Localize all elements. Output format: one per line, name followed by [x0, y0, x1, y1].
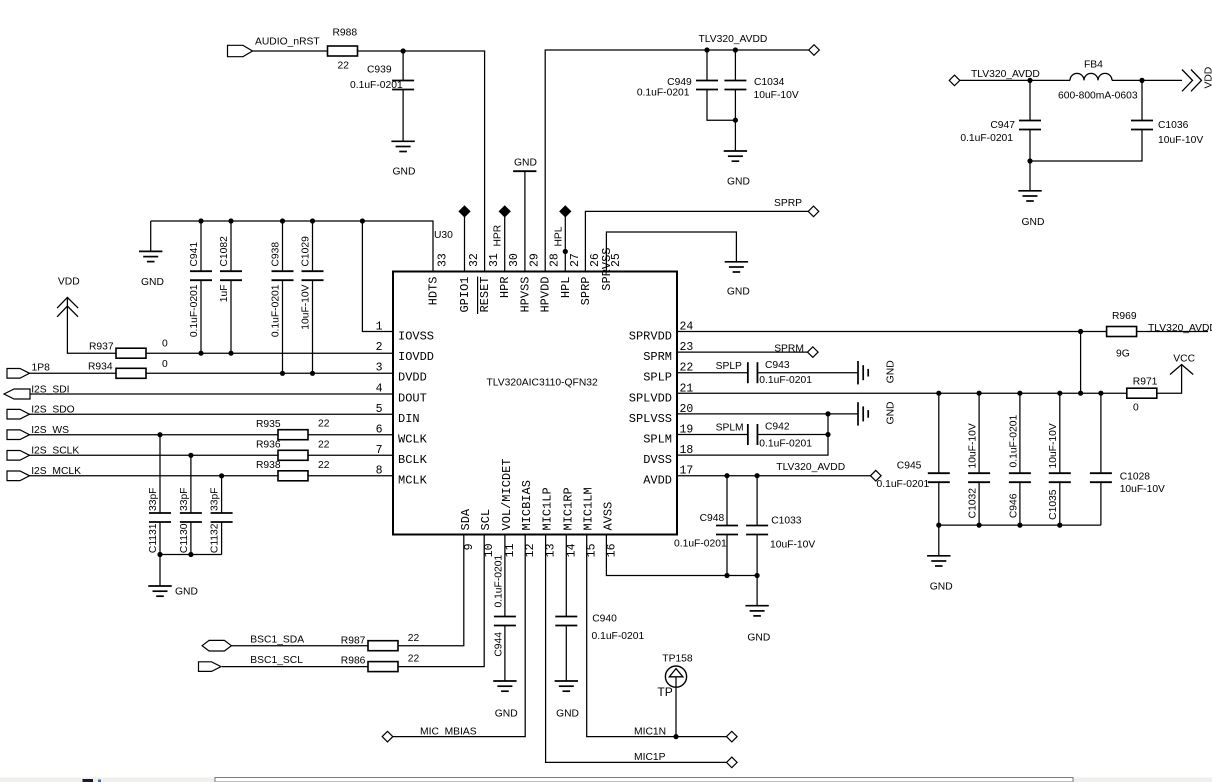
svg-text:VOL/MICDET: VOL/MICDET — [500, 458, 514, 530]
capacitor C1029 — [302, 270, 324, 272]
svg-text:DVSS: DVSS — [643, 453, 672, 467]
svg-text:BSC1_SDA: BSC1_SDA — [250, 635, 304, 646]
wire C1033 bottom — [756, 534, 758, 576]
wire DVSS pin18 riser — [677, 414, 828, 455]
wire VOL pin11 to C944 — [504, 535, 506, 618]
svg-text:MIC1LP: MIC1LP — [541, 487, 555, 530]
wire C1035 bottom — [1059, 482, 1061, 525]
resistor R987 — [368, 641, 398, 651]
offpage connector SPRP — [808, 206, 819, 217]
capacitor C941 — [190, 270, 212, 272]
svg-text:GND: GND — [393, 167, 416, 178]
capacitor C949 — [696, 80, 718, 82]
svg-text:FB4: FB4 — [1084, 60, 1103, 71]
svg-text:SPLVSS: SPLVSS — [629, 412, 672, 426]
svg-text:TLV320_AVDD: TLV320_AVDD — [1148, 323, 1212, 334]
capacitor C1028 — [1090, 472, 1112, 474]
wire C1034 top — [734, 50, 736, 81]
svg-text:SPLM: SPLM — [716, 423, 744, 434]
status bar strip — [0, 778, 1212, 782]
ground below C944 — [493, 680, 516, 682]
wire I2S_MCLK to R938 — [29, 475, 278, 477]
svg-text:C1082: C1082 — [219, 236, 230, 267]
svg-text:0.1uF-0201: 0.1uF-0201 — [350, 80, 403, 91]
svg-text:31: 31 — [488, 253, 501, 267]
svg-text:27: 27 — [569, 253, 582, 267]
port BSC1_SCL — [199, 662, 222, 672]
wire C941 top — [200, 221, 202, 272]
wire SPRM pin23 — [677, 351, 808, 353]
capacitor C1034 — [724, 80, 746, 82]
offpage connector SPRM — [808, 347, 819, 358]
junction C947 bottom — [1027, 158, 1032, 163]
wire SPRP pin26 — [585, 211, 808, 271]
svg-text:22: 22 — [318, 460, 330, 471]
wire cap gnd bus — [160, 554, 222, 556]
junction bus C1130 — [188, 552, 193, 557]
resistor R937 — [116, 348, 146, 358]
svg-text:SPRM: SPRM — [774, 344, 804, 355]
junction C1028 rail — [1098, 391, 1103, 396]
offpage connector HPR — [499, 206, 510, 217]
wire C1028 top — [1100, 393, 1102, 474]
junction C1029 top — [310, 218, 315, 223]
svg-text:C1130: C1130 — [179, 523, 190, 553]
svg-text:AVDD: AVDD — [643, 474, 672, 488]
wire C941 bottom — [200, 280, 202, 354]
junction C942 riser — [825, 432, 830, 437]
svg-text:DVDD: DVDD — [398, 371, 427, 385]
svg-text:C1035: C1035 — [1048, 489, 1059, 520]
svg-text:SPRP: SPRP — [774, 198, 802, 209]
svg-text:GND: GND — [514, 158, 537, 169]
svg-text:HPL: HPL — [553, 226, 564, 246]
junction tap on SPLVDD rail — [1078, 391, 1083, 396]
wire MIC1LP pin13 to MIC1P — [546, 535, 727, 763]
wire I2S_SDO to DIN pin5 — [29, 413, 393, 415]
wire C1036 bottom to C947 — [1030, 129, 1142, 161]
svg-text:R986: R986 — [341, 656, 366, 667]
svg-text:0.1uF-0201: 0.1uF-0201 — [674, 539, 727, 550]
ground below C1033 — [745, 605, 768, 607]
wire C1131 bottom — [159, 522, 161, 555]
wire C946 top — [1019, 393, 1021, 474]
wire SPLM pin19 to C942 — [677, 434, 748, 436]
svg-text:GND: GND — [175, 587, 198, 598]
wire tap to SPLVDD rail — [1080, 332, 1082, 394]
svg-text:SPRP: SPRP — [579, 277, 593, 306]
junction C947 top — [1027, 78, 1032, 83]
wire C947 to GND — [1029, 129, 1031, 191]
svg-text:MCLK: MCLK — [398, 474, 428, 488]
svg-text:MIC1P: MIC1P — [634, 752, 666, 763]
svg-text:GPIO1: GPIO1 — [458, 277, 472, 313]
junction AVSS C1033 — [755, 573, 760, 578]
svg-text:R988: R988 — [333, 28, 358, 39]
wire MICBIAS pin12 to port — [393, 535, 526, 737]
junction C1132 — [219, 473, 224, 478]
svg-text:MIC1N: MIC1N — [634, 727, 666, 738]
ground left caps — [148, 585, 171, 587]
svg-text:R934: R934 — [88, 362, 113, 373]
junction C1034 top — [733, 47, 738, 52]
junction SPLVSS — [825, 411, 830, 416]
svg-text:10uF-10V: 10uF-10V — [301, 284, 312, 329]
junction C1032 bottom — [977, 523, 982, 528]
svg-text:33pF: 33pF — [148, 488, 159, 511]
wire R935 to WCLK pin6 — [308, 434, 393, 436]
wire MIC1RP pin14 to C940 — [565, 535, 567, 618]
IC U30 TLV320AIC3110-QFN32 body — [393, 272, 677, 535]
svg-text:11: 11 — [504, 543, 517, 557]
junction C938 top — [280, 218, 285, 223]
junction R969 tap — [1078, 329, 1083, 334]
svg-text:0.1uF-0201: 0.1uF-0201 — [877, 479, 930, 490]
svg-text:2: 2 — [376, 341, 383, 354]
wire C1033 top — [756, 476, 758, 526]
svg-text:15: 15 — [586, 543, 599, 557]
svg-text:GND: GND — [727, 177, 750, 188]
svg-text:C942: C942 — [765, 422, 790, 433]
svg-text:R938: R938 — [256, 460, 281, 471]
svg-text:0: 0 — [1133, 403, 1139, 414]
svg-text:MIC_MBIAS: MIC_MBIAS — [420, 727, 477, 738]
svg-text:MICBIAS: MICBIAS — [520, 480, 534, 530]
wire R938 to MCLK pin8 — [308, 475, 393, 477]
wire AVSS pin16 rail — [606, 535, 757, 576]
svg-text:0: 0 — [162, 359, 168, 370]
svg-text:1uF: 1uF — [219, 285, 230, 303]
ground below C947 — [1018, 190, 1041, 192]
svg-text:SCL: SCL — [479, 509, 493, 531]
junction bus C1131 — [157, 552, 162, 557]
power symbol VDD — [57, 297, 78, 308]
svg-text:TLV320AIC3110-QFN32: TLV320AIC3110-QFN32 — [487, 378, 598, 389]
svg-text:SPRVDD: SPRVDD — [629, 330, 672, 344]
junction TP158 — [673, 734, 678, 739]
wire SCL pin10 to R986 — [398, 535, 484, 667]
svg-text:0.1uF-0201: 0.1uF-0201 — [271, 284, 282, 337]
svg-text:C946: C946 — [1009, 493, 1020, 518]
port AUDIO_nRST — [228, 45, 253, 56]
svg-text:DIN: DIN — [398, 412, 420, 426]
junction C1131 — [157, 432, 162, 437]
svg-text:GND: GND — [141, 277, 164, 288]
wire C1130 bottom — [190, 522, 192, 555]
wire C949 top — [706, 50, 708, 81]
offpage connector HPL — [560, 206, 571, 217]
svg-text:14: 14 — [565, 543, 578, 557]
wire C942 to DVSS riser — [757, 434, 828, 436]
wire VDD to R937 — [67, 297, 116, 353]
svg-text:IOVDD: IOVDD — [398, 350, 434, 364]
svg-text:0.1uF-0201: 0.1uF-0201 — [189, 284, 200, 337]
wire C938 bottom — [282, 280, 284, 374]
wire AVDD to FB4 — [960, 79, 1070, 81]
svg-text:22: 22 — [318, 440, 330, 451]
svg-text:BCLK: BCLK — [398, 453, 428, 467]
port BSC1_SDA — [202, 640, 231, 651]
capacitor C940 — [555, 616, 577, 618]
offpage connector GPIO1 — [459, 206, 470, 217]
svg-text:C949: C949 — [667, 77, 692, 88]
wire AVDD pin17 — [677, 475, 871, 477]
svg-text:10uF-10V: 10uF-10V — [754, 90, 799, 101]
svg-text:10uF-10V: 10uF-10V — [1158, 135, 1203, 146]
capacitor C1131 — [149, 512, 171, 514]
wire 1P8 to R934 — [29, 372, 116, 374]
wire R971 to VCC — [1157, 365, 1182, 394]
svg-text:C944: C944 — [493, 632, 504, 657]
svg-text:10uF-10V: 10uF-10V — [1048, 423, 1059, 468]
svg-text:C947: C947 — [990, 120, 1015, 131]
capacitor C1036 — [1131, 120, 1153, 122]
svg-text:SPLVDD: SPLVDD — [629, 391, 672, 405]
svg-text:0.1uF-0201: 0.1uF-0201 — [493, 555, 504, 608]
wire HDTS pin33 to gnd rail — [151, 221, 433, 272]
junction C1130 — [188, 453, 193, 458]
wire C940 to GND — [565, 625, 567, 681]
svg-text:22: 22 — [318, 419, 330, 430]
offpage connector MIC1P — [727, 757, 738, 768]
svg-text:9G: 9G — [1116, 349, 1130, 360]
svg-text:32: 32 — [468, 253, 481, 267]
svg-text:TLV320_AVDD: TLV320_AVDD — [699, 34, 768, 45]
wire SDA pin9 to R987 — [398, 535, 463, 646]
capacitor C939 — [392, 80, 414, 82]
svg-text:C1029: C1029 — [301, 236, 312, 267]
wire C1035 top — [1059, 393, 1061, 474]
svg-text:29: 29 — [528, 253, 541, 267]
resistor R935 — [278, 430, 308, 440]
ground SPRVSS — [725, 261, 748, 263]
gnd bar HPVSS pin29 — [513, 170, 536, 172]
svg-text:28: 28 — [549, 253, 562, 267]
junction C949 top — [704, 47, 709, 52]
svg-text:GND: GND — [556, 709, 579, 720]
capacitor C948 — [716, 525, 738, 527]
ground below C940 — [555, 680, 578, 682]
resistor R988 — [328, 46, 358, 56]
svg-text:C938: C938 — [271, 242, 282, 267]
power symbol VDD right — [1182, 70, 1193, 92]
wire I2S_SDI to DOUT pin4 — [30, 393, 393, 395]
wire R969 to TLV320_AVDD — [1137, 331, 1208, 333]
junction on HPL wire — [563, 249, 568, 254]
svg-text:12: 12 — [524, 543, 537, 557]
svg-text:C940: C940 — [592, 614, 617, 625]
svg-text:MIC1LM: MIC1LM — [582, 487, 596, 530]
ground top-left rail — [139, 250, 162, 252]
wire C945 top — [938, 393, 940, 474]
svg-text:C939: C939 — [367, 65, 392, 76]
junction pin1 rail — [360, 218, 365, 223]
wire SPLP pin22 to C943 — [677, 372, 748, 374]
junction C1032 rail — [977, 391, 982, 396]
wire C948 top — [726, 476, 728, 526]
wire R987 to port — [231, 645, 368, 647]
port I2S_SDI — [4, 389, 30, 399]
svg-text:C1028: C1028 — [1120, 472, 1151, 483]
resistor R934 — [116, 368, 146, 378]
wire MIC1LM pin15 to MIC1N — [587, 535, 727, 737]
svg-text:U30: U30 — [434, 230, 453, 241]
svg-text:GND: GND — [727, 287, 750, 298]
junction C1035 rail — [1057, 391, 1062, 396]
wire C1132 top — [221, 476, 223, 514]
wire C1036 top — [1141, 80, 1143, 121]
svg-text:HPL: HPL — [559, 277, 573, 299]
junction at R988/C939 — [401, 48, 406, 53]
junction C1082 top — [228, 218, 233, 223]
offpage connector MIC1N — [727, 731, 738, 742]
wire IOVSS pin1 to gnd rail — [362, 221, 393, 332]
wire C1131 top — [159, 435, 161, 514]
wire C938 top — [282, 221, 284, 272]
svg-text:SPLM: SPLM — [643, 433, 672, 447]
offpage connector MIC_MBIAS — [382, 731, 393, 742]
wire C1082 bottom — [230, 280, 232, 354]
resistor R936 — [278, 450, 308, 460]
capacitor C1130 — [180, 512, 202, 514]
wire C1130 top — [190, 455, 192, 513]
wire C1032 bottom — [978, 482, 980, 525]
svg-text:0.1uF-0201: 0.1uF-0201 — [759, 439, 812, 450]
junction C1082 bottom — [228, 351, 233, 356]
svg-text:C1131: C1131 — [148, 523, 159, 553]
svg-text:0: 0 — [162, 339, 168, 350]
svg-text:C1132: C1132 — [210, 523, 221, 553]
wire C1082 top — [230, 221, 232, 272]
svg-text:4: 4 — [376, 382, 383, 395]
junction C1034 bottom — [733, 118, 738, 123]
capacitor C1032 — [968, 472, 990, 474]
port I2S_SDO — [7, 409, 30, 419]
svg-text:RESET: RESET — [478, 276, 492, 312]
svg-text:C1036: C1036 — [1158, 120, 1189, 131]
junction AVSS C948 — [724, 573, 729, 578]
junction C1035 bottom — [1057, 523, 1062, 528]
capacitor C945 — [928, 472, 950, 474]
junction C946 bottom — [1017, 523, 1022, 528]
wire C1032 top — [978, 393, 980, 474]
junction C941 top — [198, 218, 203, 223]
svg-text:TP: TP — [657, 685, 672, 699]
svg-text:AUDIO_nRST: AUDIO_nRST — [255, 37, 320, 48]
svg-text:VCC: VCC — [1173, 354, 1195, 365]
capacitor C946 — [1009, 472, 1031, 474]
svg-text:IOVSS: IOVSS — [398, 330, 434, 344]
capacitor C1035 — [1049, 472, 1071, 474]
svg-text:AVSS: AVSS — [601, 502, 615, 531]
port 1P8 — [7, 369, 30, 379]
offpage connector TLV320_AVDD top — [809, 45, 820, 56]
svg-text:VDD: VDD — [58, 277, 80, 288]
wire C1029 top — [312, 221, 314, 272]
svg-text:33pF: 33pF — [179, 488, 190, 511]
wire gnd rail stem — [150, 221, 152, 251]
svg-text:TP158: TP158 — [662, 653, 693, 664]
svg-text:0.1uF-0201: 0.1uF-0201 — [592, 631, 645, 642]
resistor R938 — [278, 471, 308, 481]
svg-text:0.1uF-0201: 0.1uF-0201 — [637, 88, 690, 99]
wire I2S_SCLK to R936 — [29, 454, 278, 456]
svg-text:GND: GND — [930, 582, 953, 593]
ground right SPLVSS — [857, 402, 859, 425]
junction C941 bottom — [198, 351, 203, 356]
junction C946 rail — [1017, 391, 1022, 396]
wire R988 to RESET pin31 — [358, 51, 485, 272]
svg-text:C1034: C1034 — [754, 77, 785, 88]
svg-text:30: 30 — [508, 253, 521, 267]
ground below C1034 — [724, 150, 747, 152]
svg-text:33: 33 — [437, 253, 450, 267]
wire I2S_WS to R935 — [29, 434, 278, 436]
wire R986 to port — [222, 666, 368, 668]
ground right SPLP — [857, 361, 859, 384]
wire bus to GND — [159, 555, 161, 587]
svg-text:22: 22 — [408, 633, 420, 644]
svg-text:GND: GND — [886, 402, 897, 425]
svg-text:MIC1RP: MIC1RP — [561, 487, 575, 530]
svg-text:9: 9 — [463, 543, 476, 550]
svg-text:13: 13 — [545, 543, 558, 557]
svg-text:10uF-10V: 10uF-10V — [968, 423, 979, 468]
wire C1029 bottom — [312, 280, 314, 374]
svg-text:SDA: SDA — [459, 508, 473, 530]
wire HPR pin30 up — [504, 214, 506, 272]
U30 pin 31 RESET overline — [477, 277, 479, 315]
offpage connector TLV320_AVDD right — [949, 75, 960, 86]
capacitor C938 — [272, 270, 294, 272]
wire SPRVDD pin24 to R969 — [677, 331, 1107, 333]
junction C945 rail — [936, 391, 941, 396]
svg-text:R969: R969 — [1112, 311, 1137, 322]
svg-text:10uF-10V: 10uF-10V — [770, 540, 815, 551]
wire AUDIO_nRST to R988 — [252, 50, 328, 52]
svg-text:R987: R987 — [341, 636, 366, 647]
svg-text:10uF-10V: 10uF-10V — [1120, 484, 1165, 495]
junction C1036 top — [1139, 78, 1144, 83]
wire C946 bottom — [1019, 482, 1021, 525]
testpoint TP158 — [665, 666, 686, 687]
svg-text:R971: R971 — [1133, 377, 1158, 388]
svg-text:0.1uF-0201: 0.1uF-0201 — [960, 133, 1013, 144]
wire R937 to IOVDD pin2 — [146, 352, 393, 354]
svg-text:HDTS: HDTS — [427, 277, 441, 306]
wire C943 to GND — [757, 372, 858, 374]
svg-text:SPRM: SPRM — [643, 350, 672, 364]
svg-text:SPLP: SPLP — [716, 361, 742, 372]
junction C938 bottom — [280, 371, 285, 376]
wire C1034 to GND — [734, 89, 736, 151]
junction C1029 bottom — [310, 371, 315, 376]
port I2S_SCLK — [7, 451, 30, 461]
svg-text:25: 25 — [610, 253, 623, 267]
svg-text:C941: C941 — [189, 242, 200, 267]
svg-text:16: 16 — [605, 543, 618, 557]
svg-text:GND: GND — [747, 633, 770, 644]
svg-text:DOUT: DOUT — [398, 391, 427, 405]
resistor R986 — [368, 662, 398, 672]
svg-text:HPVSS: HPVSS — [518, 277, 532, 313]
capacitor C943 — [747, 362, 749, 383]
capacitor C1033 — [746, 525, 768, 527]
svg-text:R937: R937 — [89, 342, 114, 353]
svg-text:33pF: 33pF — [210, 488, 221, 511]
wire C939 to GND — [402, 89, 404, 141]
svg-text:VDD: VDD — [1204, 67, 1212, 89]
